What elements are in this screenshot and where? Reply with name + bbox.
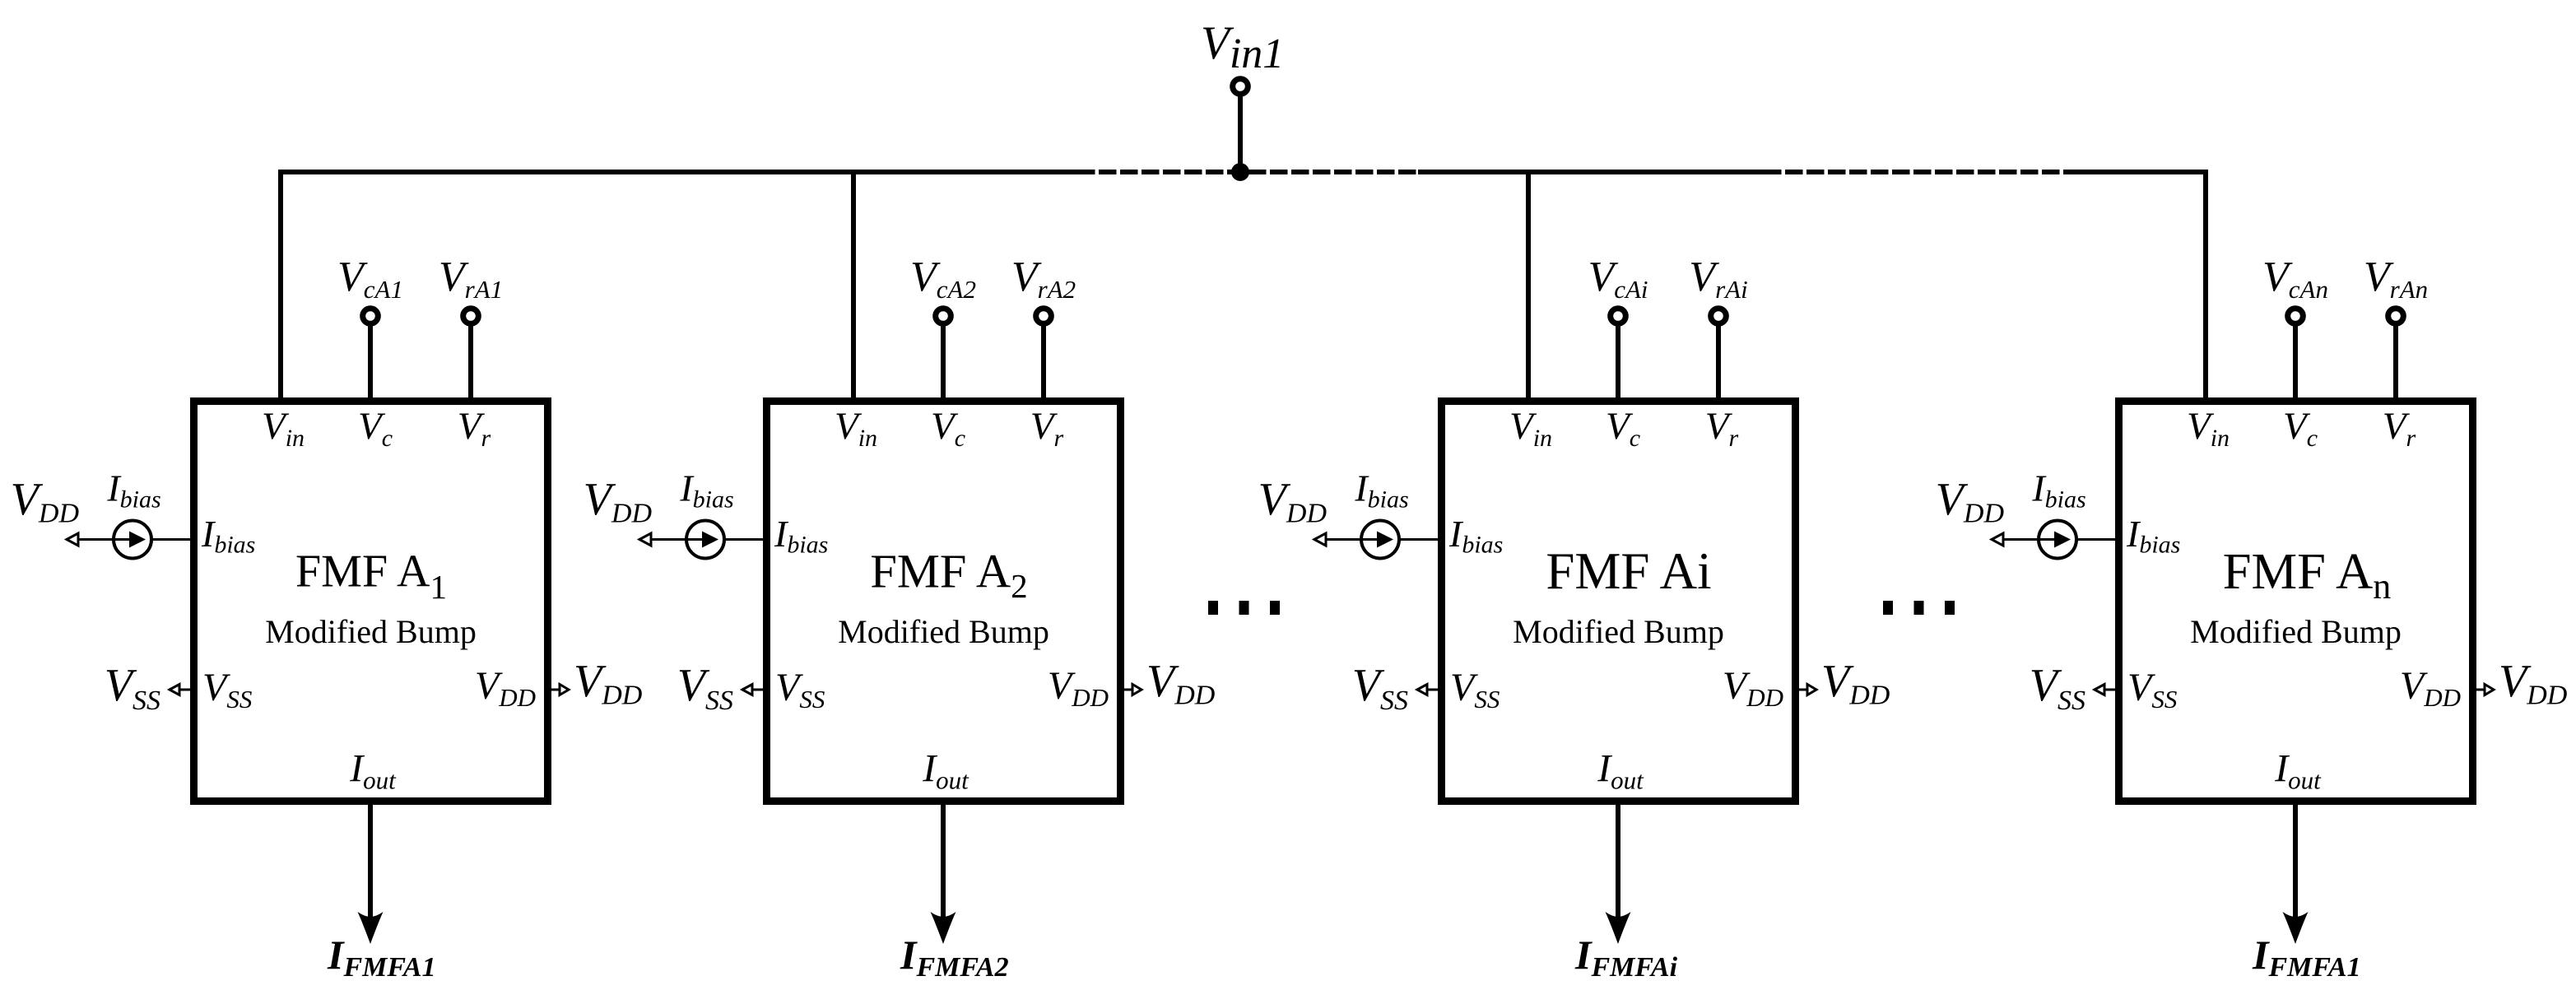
open arrowhead VDD U4 bbox=[2485, 685, 2494, 695]
svg-text:FMF A1: FMF A1 bbox=[295, 546, 447, 607]
wire Vin1 stub bbox=[1238, 92, 1243, 174]
node VcA2 terminal circle bbox=[936, 309, 951, 324]
open arrowhead VSS U4 bbox=[2095, 685, 2104, 695]
box U1 bbox=[194, 402, 548, 802]
open arrowhead VSS U2 bbox=[742, 685, 752, 695]
wire Iout output U2 bbox=[941, 805, 946, 921]
node VcA1 terminal circle bbox=[363, 309, 379, 324]
wire Vin riser U1 bbox=[278, 170, 283, 397]
node VrA2 terminal circle bbox=[1036, 309, 1052, 324]
wire Vin riser U4 bbox=[2203, 170, 2208, 397]
wire Iout output U3 bbox=[1616, 805, 1620, 921]
open arrowhead Ibias to VDD U1 bbox=[67, 533, 78, 546]
open arrowhead VSS U3 bbox=[1417, 685, 1427, 695]
arrowhead Iout U2 bbox=[931, 912, 956, 944]
wire Vc stub U1 bbox=[368, 321, 373, 397]
node VrAi terminal circle bbox=[1711, 309, 1727, 324]
wire VSS pin U4 bbox=[2104, 689, 2115, 691]
node VcAn terminal circle bbox=[2288, 309, 2304, 324]
wire Ibias U3 bbox=[1325, 538, 1438, 541]
wire Iout output U4 bbox=[2293, 805, 2298, 921]
wire Vr stub U4 bbox=[2393, 321, 2398, 397]
open arrowhead VDD U2 bbox=[1132, 685, 1142, 695]
current source circle Ibias U2 bbox=[686, 521, 724, 559]
box U3 bbox=[1442, 402, 1796, 802]
box U2 bbox=[767, 402, 1121, 802]
wire Vin1 bus solid segment 3 bbox=[2079, 170, 2208, 174]
current source circle Ibias U4 bbox=[2039, 521, 2076, 559]
wire Vc stub U3 bbox=[1616, 321, 1620, 397]
wire Vin1 bus solid segment 1 bbox=[278, 170, 1077, 174]
ellipsis dots between A2 and Ai bbox=[1208, 601, 1218, 615]
node VcAi terminal circle bbox=[1611, 309, 1626, 324]
svg-text:FMF Ai: FMF Ai bbox=[1546, 542, 1711, 600]
svg-text:Modified Bump: Modified Bump bbox=[838, 613, 1049, 650]
wire Vr stub U1 bbox=[468, 321, 473, 397]
node VrA1 terminal circle bbox=[463, 309, 479, 324]
open arrowhead Ibias to VDD U2 bbox=[639, 533, 651, 546]
open arrowhead VDD U3 bbox=[1807, 685, 1816, 695]
wire VDD pin U4 bbox=[2476, 689, 2485, 691]
node Vin1 terminal circle bbox=[1233, 79, 1248, 95]
wire VDD pin U2 bbox=[1124, 689, 1132, 691]
svg-text:Modified Bump: Modified Bump bbox=[265, 613, 477, 650]
wire Vc stub U4 bbox=[2293, 321, 2298, 397]
open arrowhead VDD U1 bbox=[560, 685, 569, 695]
open arrowhead Ibias to VDD U4 bbox=[1992, 533, 2003, 546]
junction Vin1 on bus bbox=[1231, 163, 1249, 181]
arrowhead Iout U4 bbox=[2283, 912, 2309, 944]
svg-text:FMF An: FMF An bbox=[2223, 542, 2391, 607]
wire VSS pin U2 bbox=[751, 689, 763, 691]
wire Iout output U1 bbox=[368, 805, 373, 921]
current source arrow U2 bbox=[687, 538, 704, 541]
wire Vin riser U3 bbox=[1526, 170, 1531, 397]
ellipsis dots between Ai and An bbox=[1883, 601, 1893, 615]
wire Vin1 bus dashed segment 1 bbox=[1077, 170, 1418, 174]
current source arrow U1 bbox=[114, 538, 131, 541]
svg-text:Modified Bump: Modified Bump bbox=[1513, 613, 1724, 650]
arrowhead Iout U1 bbox=[358, 912, 384, 944]
wire Ibias U1 bbox=[77, 538, 190, 541]
wire VSS pin U3 bbox=[1426, 689, 1438, 691]
current source circle Ibias U1 bbox=[114, 521, 151, 559]
open arrowhead Ibias to VDD U3 bbox=[1314, 533, 1326, 546]
node VrAn terminal circle bbox=[2388, 309, 2404, 324]
open arrowhead VSS U1 bbox=[170, 685, 179, 695]
wire Vc stub U2 bbox=[941, 321, 946, 397]
wire Ibias U4 bbox=[2002, 538, 2115, 541]
wire Vin1 bus solid segment 2 bbox=[1418, 170, 1764, 174]
svg-text:FMF A2: FMF A2 bbox=[870, 545, 1027, 606]
wire Ibias U2 bbox=[650, 538, 763, 541]
box U4 bbox=[2119, 402, 2473, 802]
current source circle Ibias U3 bbox=[1361, 521, 1399, 559]
wire Vin1 bus dashed segment 2 bbox=[1764, 170, 2079, 174]
wire Vin riser U2 bbox=[851, 170, 856, 397]
wire VSS pin U1 bbox=[179, 689, 190, 691]
wire VDD pin U1 bbox=[551, 689, 560, 691]
wire Vr stub U2 bbox=[1041, 321, 1046, 397]
wire VDD pin U3 bbox=[1799, 689, 1807, 691]
current source arrow U4 bbox=[2039, 538, 2056, 541]
svg-text:Modified Bump: Modified Bump bbox=[2190, 613, 2402, 650]
arrowhead Iout U3 bbox=[1606, 912, 1631, 944]
wire Vr stub U3 bbox=[1716, 321, 1721, 397]
current source arrow U3 bbox=[1362, 538, 1379, 541]
